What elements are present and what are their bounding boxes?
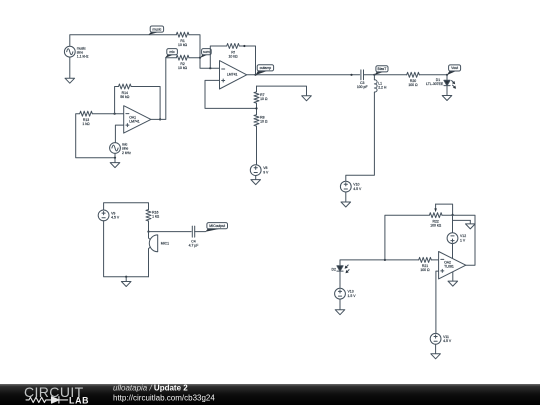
wire R7 to R8 bbox=[255, 103, 257, 115]
ground under V11 bbox=[431, 354, 441, 359]
resistor R13 1 k&#937; bbox=[80, 111, 93, 126]
resistor R20 100 &#937; bbox=[407, 72, 420, 87]
svg-text:LM741: LM741 bbox=[129, 120, 140, 124]
label D2 bbox=[331, 267, 335, 271]
footer bar bbox=[0, 384, 540, 405]
LED D1 LTL-307EE bbox=[444, 80, 456, 89]
wire op-amp output to C3 bbox=[247, 74, 360, 76]
wire V12 top branch bbox=[453, 215, 471, 233]
svg-text:4.5 V: 4.5 V bbox=[353, 187, 362, 191]
svg-text:LM741: LM741 bbox=[227, 73, 238, 77]
svg-text:1 V: 1 V bbox=[460, 239, 466, 243]
flag outamp bbox=[256, 65, 274, 75]
wire D1 anode bbox=[446, 75, 448, 81]
wire BiasT node to R20 bbox=[374, 74, 406, 76]
footer title ulloatapia / Update 2 bbox=[113, 383, 188, 392]
wire V13 to ground bbox=[339, 299, 341, 310]
ground at V12 bbox=[466, 224, 476, 229]
svg-text:100 Ω: 100 Ω bbox=[420, 268, 430, 272]
svg-text:Vout: Vout bbox=[451, 66, 458, 70]
op-amp U2 LM741 summing amplifier bbox=[220, 61, 247, 89]
svg-text:100 pF: 100 pF bbox=[357, 85, 368, 89]
voltage source music sine 1.1 kHz bbox=[64, 46, 88, 58]
resistor R7 10 &#937; bbox=[254, 92, 268, 103]
op-amp OA2 TL081 bbox=[439, 252, 466, 279]
wire V10 to ground bbox=[345, 192, 347, 202]
svg-text:BiasT: BiasT bbox=[378, 67, 388, 71]
wire R1 to sum node bbox=[189, 35, 200, 58]
wire R13 left leg bbox=[76, 114, 115, 158]
potentiometer R22 wiper arrow bbox=[434, 204, 437, 212]
ground under V13 bbox=[335, 310, 345, 315]
wire R16 to mic node bbox=[147, 221, 149, 233]
wire D2 cathode to V13 bbox=[339, 271, 341, 288]
wire BiasT node into L1 bbox=[373, 75, 375, 80]
wire R20 to D1 bbox=[419, 74, 448, 76]
wire sum to inverting input bbox=[200, 58, 220, 68]
ground under OA2 bbox=[448, 281, 458, 286]
voltage source V10 4.5 V bbox=[340, 181, 362, 192]
voltage source V8 9 V bbox=[250, 165, 269, 176]
wire feedback up to R22 bbox=[385, 215, 429, 260]
wire OA1 non-inverting input to mic source bbox=[115, 125, 123, 143]
wire R22 right to output bbox=[442, 215, 475, 265]
resistor R14 56 k&#937; bbox=[119, 84, 132, 99]
svg-text:MICoutput: MICoutput bbox=[209, 224, 225, 228]
wire V9 top rail bbox=[104, 203, 149, 210]
svg-text:D2: D2 bbox=[331, 267, 335, 271]
node feedback tap bbox=[209, 67, 211, 69]
wire Rf to output bbox=[239, 45, 256, 76]
svg-text:9 V: 9 V bbox=[263, 170, 269, 174]
op-amp OA1 LM741 bbox=[124, 106, 151, 133]
capacitor C4 4.7 &#181;F bbox=[189, 226, 199, 247]
wire OA2 non-inverting input to V11 bbox=[436, 271, 439, 333]
svg-text:mic: mic bbox=[169, 50, 175, 54]
wire OA2 V- pin to ground bbox=[452, 272, 454, 281]
ground under V8 bbox=[251, 180, 261, 185]
svg-text:10 Ω: 10 Ω bbox=[260, 97, 268, 101]
flag music bbox=[148, 26, 163, 35]
wire R14 to OA1 output bbox=[131, 87, 161, 121]
wire C4 to MICoutput bbox=[195, 231, 206, 233]
ground under mic source bbox=[110, 163, 120, 168]
wire mic node to C4 bbox=[149, 231, 192, 233]
resistor Rf 10 k&#937; bbox=[227, 44, 240, 59]
wire R2 to sum node bbox=[189, 57, 200, 59]
svg-text:4.5 V: 4.5 V bbox=[443, 339, 452, 343]
ground under V10 bbox=[341, 202, 351, 207]
wire tap up to R14 bbox=[115, 87, 119, 114]
microphone MIC1 bbox=[149, 235, 169, 252]
ground under music source bbox=[65, 78, 75, 83]
voltage source mic sine 2 kHz bbox=[110, 142, 131, 154]
flag mic bbox=[165, 49, 177, 58]
wire mic source to ground rail bbox=[114, 153, 116, 162]
svg-text:MIC1: MIC1 bbox=[161, 242, 169, 246]
svg-text:2.2 H: 2.2 H bbox=[378, 85, 387, 89]
resistor R1 10 k&#937; bbox=[176, 32, 189, 47]
wire R8 to V8 bbox=[256, 126, 258, 165]
wire D2 to R21 bbox=[340, 259, 419, 266]
resistor R21 100 &#937; bbox=[419, 257, 432, 272]
wire R22 wiper bridge bbox=[436, 204, 454, 216]
svg-text:100 kΩ: 100 kΩ bbox=[430, 224, 441, 228]
wire L1 to V10 bbox=[346, 92, 375, 181]
CircuitLab logo text CIRCUIT bbox=[24, 384, 84, 400]
svg-text:1.1 kHz: 1.1 kHz bbox=[77, 55, 89, 59]
flag sum bbox=[200, 49, 211, 58]
wire mic node into MIC1 bbox=[149, 232, 151, 240]
resistor R16 1 k&#937; bbox=[146, 210, 160, 221]
photodiode D2 bbox=[337, 265, 349, 273]
svg-text:TL081: TL081 bbox=[444, 264, 454, 268]
label D1 LTL-307EE bbox=[426, 78, 444, 86]
wire OA1 output up to mic node bbox=[151, 58, 166, 120]
flag MICoutput bbox=[205, 223, 227, 232]
wire V12 to OA2 V+ pin bbox=[452, 244, 454, 259]
wire V8 to ground bbox=[255, 176, 257, 180]
flag Vout bbox=[447, 65, 461, 75]
capacitor C3 100 pF bbox=[357, 70, 368, 89]
potentiometer R22 100 k&#937; bbox=[429, 213, 442, 228]
CircuitLab logo text LAB bbox=[69, 395, 89, 405]
svg-text:10 kΩ: 10 kΩ bbox=[228, 54, 237, 58]
ground under microphone rail bbox=[121, 282, 131, 287]
voltage source V11 4.5 V bbox=[430, 333, 452, 344]
resistor R8 10 &#937; bbox=[254, 115, 268, 126]
ground under D1 bbox=[442, 96, 452, 101]
voltage source V13 1.5 V bbox=[335, 288, 357, 299]
wire feedback tap up to Rf bbox=[210, 46, 226, 68]
svg-text:1 kΩ: 1 kΩ bbox=[152, 215, 160, 219]
svg-text:4.5 V: 4.5 V bbox=[111, 216, 120, 220]
inductor L1 2.2 H bbox=[374, 80, 387, 92]
svg-text:4.7 µF: 4.7 µF bbox=[189, 243, 199, 247]
wire R21 to OA2 inverting input bbox=[431, 259, 438, 261]
wire V11 to ground bbox=[435, 344, 437, 354]
wire R7 top to ground bbox=[257, 86, 307, 96]
CircuitLab logo resistor and diode glyph bbox=[26, 397, 68, 403]
wire into R7 bbox=[256, 86, 258, 92]
wire D1 cathode to ground bbox=[446, 86, 448, 96]
svg-text:56 kΩ: 56 kΩ bbox=[120, 95, 129, 99]
svg-text:LTL-307EE: LTL-307EE bbox=[426, 82, 444, 86]
svg-text:1.5 V: 1.5 V bbox=[348, 294, 357, 298]
wire V9 bottom rail bbox=[104, 221, 149, 277]
flag BiasT bbox=[375, 66, 389, 75]
svg-text:outamp: outamp bbox=[260, 66, 272, 70]
svg-text:10 Ω: 10 Ω bbox=[260, 120, 268, 124]
svg-text:10 kΩ: 10 kΩ bbox=[178, 66, 187, 70]
wire MIC1 to bottom rail bbox=[149, 247, 151, 277]
svg-text:ulloatapia / Update 2: ulloatapia / Update 2 bbox=[113, 383, 188, 392]
svg-text:100 Ω: 100 Ω bbox=[408, 83, 418, 87]
node bottom rail junction bbox=[125, 276, 127, 282]
wire R13 to inverting input bbox=[92, 113, 123, 115]
voltage source V9 4.5 V bbox=[98, 210, 120, 221]
wire C3 to BiasT node bbox=[364, 74, 376, 76]
wire music source to R1 bbox=[70, 35, 177, 47]
resistor R2 10 k&#937; bbox=[176, 55, 189, 70]
voltage source V12 1 V bbox=[447, 233, 466, 244]
svg-text:sum: sum bbox=[203, 50, 210, 54]
wire mic node to R2 bbox=[166, 57, 177, 59]
svg-text:2 kHz: 2 kHz bbox=[122, 151, 131, 155]
ground at R7 top bbox=[302, 96, 312, 101]
svg-text:LAB: LAB bbox=[69, 395, 89, 405]
svg-text:1 kΩ: 1 kΩ bbox=[82, 122, 90, 126]
svg-text:music: music bbox=[152, 27, 161, 31]
wire non-inverting input to divider bbox=[205, 80, 257, 108]
svg-text:http://circuitlab.com/cb33g24: http://circuitlab.com/cb33g24 bbox=[113, 393, 215, 402]
footer url bbox=[113, 393, 215, 402]
svg-text:10 kΩ: 10 kΩ bbox=[178, 43, 187, 47]
node sum junction bbox=[199, 57, 201, 59]
wire music source to ground bbox=[69, 57, 71, 78]
